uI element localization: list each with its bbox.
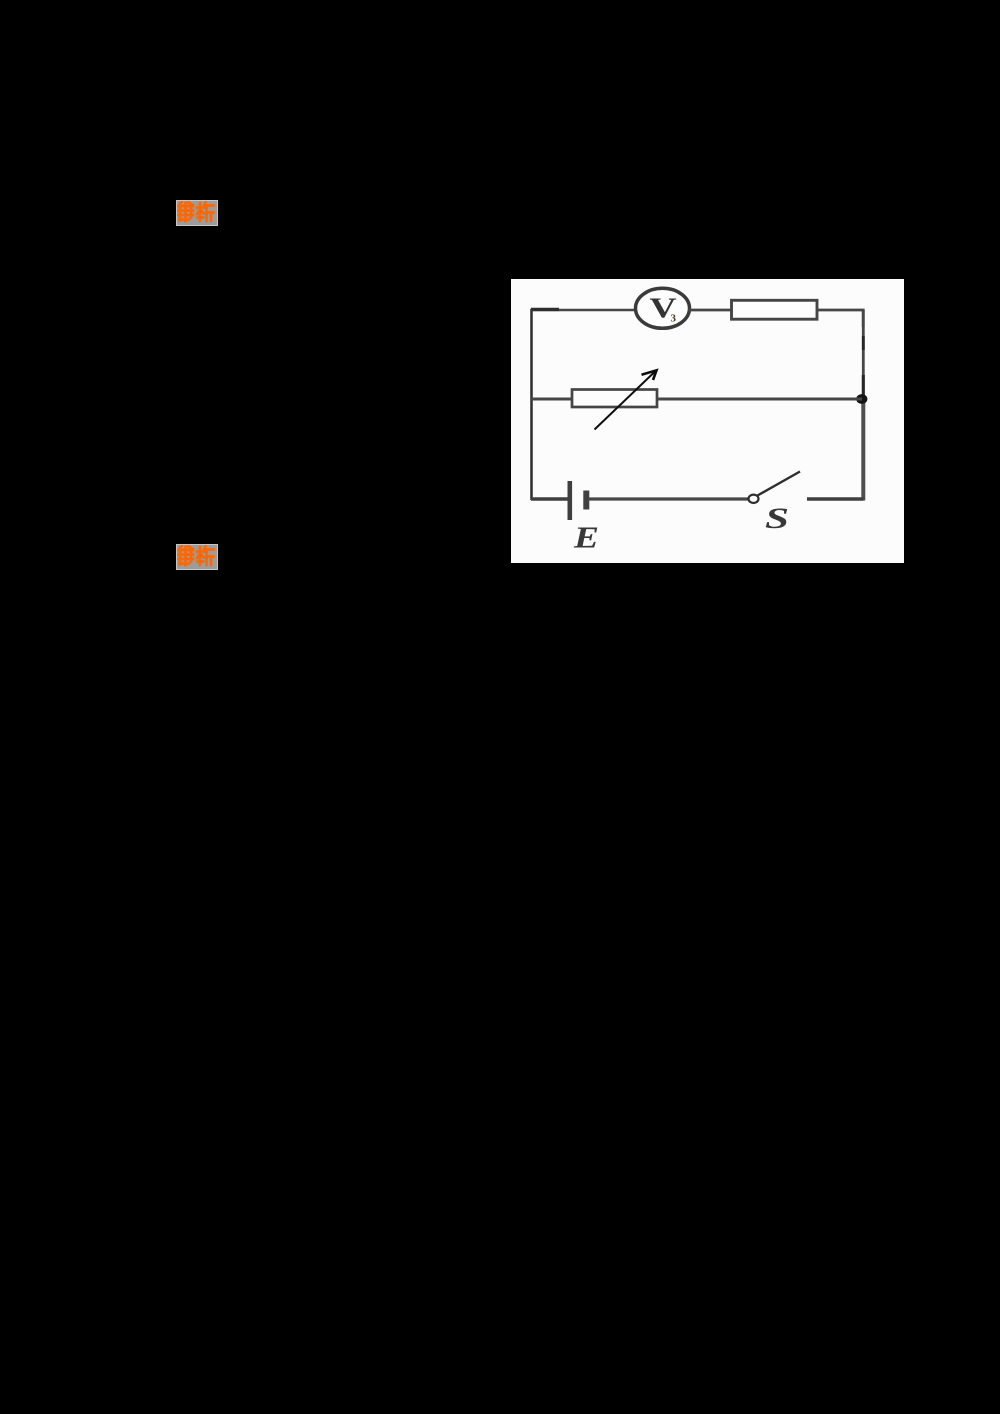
node junction dot [856,394,867,404]
resistor R (top branch) [732,300,818,319]
circuit panel [511,279,904,563]
wire middle branch right [657,398,862,401]
rheostat arrow shaft [595,372,655,430]
svg-text:E: E [573,520,599,555]
wire bottom-left [531,497,568,500]
rheostat arrowhead [642,370,657,380]
wire top-left thick overlay [531,308,559,311]
wire battery to switch [589,497,748,500]
wire resistor to top-right corner [817,310,863,327]
wire top-left horizontal [531,309,635,312]
wire right vertical dark patch 2 [862,375,865,399]
wire middle branch left [531,398,573,401]
svg-text:S: S [765,502,789,535]
wire right vertical upper [862,310,865,399]
switch S lever [758,472,801,496]
tag jiexi-1 (orange CJK label box) [176,200,218,226]
battery E short plate [583,491,589,510]
wire left vertical [530,309,533,500]
tag jiexi-2 (orange CJK label box) [176,544,218,570]
battery E long plate [567,481,572,520]
svg-text:3: 3 [671,313,677,325]
wire right vertical dark patch 1 [862,336,865,350]
wire voltmeter to resistor R [689,309,733,312]
wire right vertical lower [861,399,865,501]
rheostat R' rectangle [572,390,657,408]
voltmeter V3 ellipse [636,288,690,328]
wire switch to bottom-right corner [807,497,864,500]
switch S pivot circle [749,495,759,503]
